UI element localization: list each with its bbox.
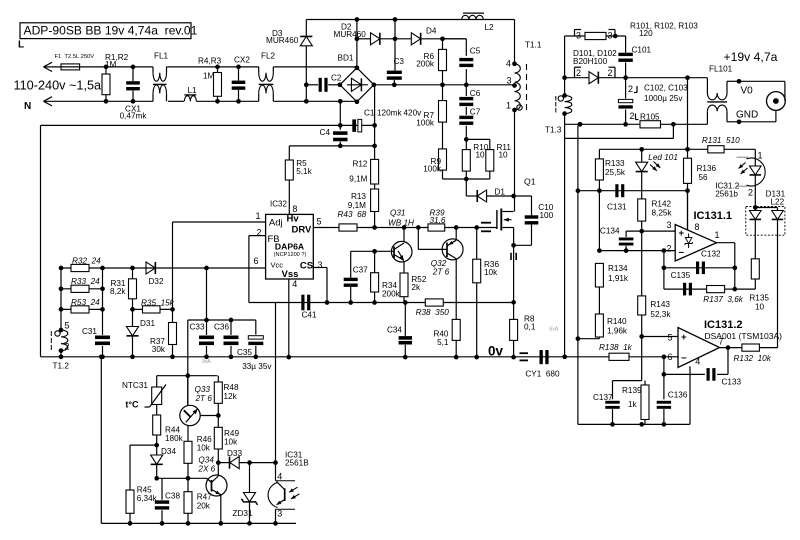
svg-text:C134: C134: [600, 226, 620, 235]
svg-text:C2: C2: [331, 73, 342, 82]
svg-text:Q1: Q1: [524, 177, 536, 187]
svg-text:52,3k: 52,3k: [650, 310, 671, 319]
svg-text:DRV: DRV: [292, 224, 313, 235]
svg-text:IC131.2: IC131.2: [704, 319, 743, 331]
svg-text:C101: C101: [632, 46, 652, 55]
svg-text:120mk: 120mk: [377, 108, 402, 117]
svg-text:Hv: Hv: [287, 213, 300, 224]
svg-text:CY1 680: CY1 680: [525, 369, 560, 378]
svg-text:6,34k: 6,34k: [137, 494, 158, 503]
svg-text:1,91k: 1,91k: [608, 274, 629, 283]
svg-text:8,2k: 8,2k: [110, 287, 126, 296]
svg-text:100k: 100k: [423, 164, 442, 173]
svg-text:R38 350: R38 350: [416, 308, 450, 317]
svg-text:31,6: 31,6: [430, 216, 446, 225]
svg-text:R12: R12: [352, 159, 367, 168]
svg-text:R134: R134: [608, 264, 628, 273]
svg-text:1: 1: [758, 151, 763, 161]
svg-text:C133: C133: [722, 378, 742, 387]
svg-text:10: 10: [755, 303, 765, 312]
svg-text:4: 4: [292, 279, 297, 289]
svg-text:8,25k: 8,25k: [652, 209, 673, 218]
svg-text:−: −: [679, 248, 685, 259]
svg-text:3: 3: [318, 260, 323, 270]
svg-text:25,5k: 25,5k: [605, 168, 626, 177]
svg-text:R13: R13: [351, 192, 366, 201]
svg-text:R142: R142: [652, 199, 672, 208]
svg-text:+: +: [681, 332, 687, 343]
svg-text:+19v 4,7a: +19v 4,7a: [724, 50, 778, 64]
svg-text:R53 24: R53 24: [71, 298, 100, 307]
svg-text:D34: D34: [161, 447, 176, 456]
svg-text:ADP-90SB BB 19v 4,74a rev.01: ADP-90SB BB 19v 4,74a rev.01: [24, 24, 198, 38]
svg-text:4: 4: [277, 472, 282, 482]
svg-text:33µ 35v: 33µ 35v: [242, 362, 272, 371]
svg-text:10k: 10k: [484, 268, 498, 277]
svg-text:C33: C33: [190, 322, 205, 331]
svg-text:2: 2: [607, 68, 612, 78]
svg-text:8: 8: [695, 222, 700, 232]
svg-text:C31: C31: [82, 327, 97, 336]
svg-text:−: −: [681, 353, 687, 364]
svg-text:FL1: FL1: [154, 51, 169, 60]
svg-text:C35: C35: [237, 348, 252, 357]
svg-text:Led 101: Led 101: [648, 153, 678, 162]
svg-text:C36: C36: [214, 322, 229, 331]
svg-text:R136: R136: [697, 164, 717, 173]
svg-text:1M: 1M: [105, 60, 117, 69]
svg-text:420v: 420v: [404, 108, 423, 117]
svg-text:5,1: 5,1: [437, 338, 449, 347]
svg-text:7: 7: [719, 337, 724, 347]
svg-text:2T 6: 2T 6: [195, 394, 213, 403]
svg-text:3: 3: [666, 220, 671, 230]
svg-text:FL101: FL101: [709, 65, 733, 74]
svg-text:10k: 10k: [224, 438, 238, 447]
svg-text:120: 120: [639, 29, 653, 38]
svg-text:110-240v ~1,5a: 110-240v ~1,5a: [14, 78, 103, 92]
svg-text:C136: C136: [668, 390, 688, 399]
svg-text:1k: 1k: [628, 400, 638, 409]
svg-text:2: 2: [748, 187, 753, 197]
svg-text:10k: 10k: [197, 444, 211, 453]
svg-text:BD1: BD1: [338, 54, 354, 63]
svg-text:DAP6A: DAP6A: [275, 241, 304, 251]
svg-text:0,1: 0,1: [524, 323, 536, 332]
svg-text:C4: C4: [320, 128, 331, 137]
svg-text:2561B: 2561B: [285, 459, 309, 468]
svg-text:Q31: Q31: [390, 209, 405, 218]
svg-text:R32 24: R32 24: [72, 257, 101, 266]
svg-text:T1.2: T1.2: [53, 361, 70, 370]
svg-text:R4,R3: R4,R3: [198, 56, 222, 65]
svg-text:R35 15k: R35 15k: [141, 299, 175, 308]
svg-text:1: 1: [506, 101, 511, 111]
svg-text:R48: R48: [224, 383, 239, 392]
svg-text:30k: 30k: [152, 345, 166, 354]
svg-text:180k: 180k: [165, 434, 184, 443]
svg-text:4: 4: [506, 58, 511, 68]
svg-text:3: 3: [277, 509, 282, 519]
svg-text:2: 2: [666, 243, 671, 253]
svg-text:C3: C3: [394, 57, 405, 66]
svg-text:L22: L22: [771, 198, 785, 207]
svg-text:0,47mk: 0,47mk: [120, 111, 148, 120]
svg-text:IC32: IC32: [270, 200, 287, 209]
svg-text:(NCP1200 ?): (NCP1200 ?): [274, 252, 307, 258]
svg-text:5: 5: [65, 321, 70, 331]
svg-text:D31: D31: [140, 319, 155, 328]
svg-text:+: +: [679, 228, 685, 239]
svg-text:C1: C1: [364, 108, 375, 117]
svg-text:C34: C34: [387, 326, 402, 335]
svg-text:1,96k: 1,96k: [607, 327, 628, 336]
svg-text:10: 10: [476, 150, 486, 159]
svg-text:CX2: CX2: [234, 55, 250, 64]
svg-text:R137 3,6k: R137 3,6k: [703, 295, 744, 304]
svg-text:R43 68: R43 68: [338, 210, 367, 219]
svg-text:C132: C132: [701, 250, 721, 259]
svg-text:R139: R139: [622, 386, 642, 395]
svg-text:C131: C131: [607, 203, 627, 212]
svg-text:2: 2: [630, 111, 635, 121]
svg-text:R44: R44: [165, 425, 180, 434]
svg-text:9,1M: 9,1M: [348, 201, 366, 210]
svg-text:F1 T2.5L 250V: F1 T2.5L 250V: [55, 54, 95, 60]
svg-text:R140: R140: [607, 317, 627, 326]
svg-text:C5: C5: [470, 46, 481, 55]
svg-text:Q33: Q33: [195, 385, 211, 394]
svg-text:20k: 20k: [197, 501, 211, 510]
svg-text:C137: C137: [593, 393, 613, 402]
svg-text:D4: D4: [426, 27, 437, 36]
svg-text:56: 56: [699, 173, 709, 182]
svg-text:1: 1: [255, 211, 260, 221]
svg-text:C41: C41: [302, 310, 317, 319]
svg-text:200k: 200k: [416, 59, 435, 68]
svg-text:5: 5: [667, 332, 672, 342]
svg-text:C38: C38: [165, 491, 180, 500]
svg-text:C7: C7: [470, 107, 481, 116]
svg-text:WB 1H: WB 1H: [388, 219, 414, 228]
svg-text:C6: C6: [470, 89, 481, 98]
svg-text:NTC31: NTC31: [122, 381, 148, 390]
svg-text:2k: 2k: [411, 283, 421, 292]
svg-text:0v: 0v: [488, 343, 504, 358]
svg-text:C37: C37: [353, 266, 368, 275]
svg-text:6: 6: [253, 256, 258, 266]
svg-text:R132 10k: R132 10k: [734, 354, 772, 363]
svg-text:R105: R105: [640, 113, 660, 122]
svg-text:2: 2: [65, 342, 70, 352]
svg-text:9,1M: 9,1M: [349, 174, 367, 183]
svg-text:GND: GND: [736, 109, 758, 120]
svg-text:D1: D1: [495, 188, 506, 197]
svg-text:t°C: t°C: [125, 400, 139, 410]
svg-text:12k: 12k: [224, 392, 238, 401]
svg-text:MUR460: MUR460: [266, 36, 299, 45]
svg-text:R47: R47: [197, 493, 212, 502]
svg-text:3: 3: [506, 76, 511, 86]
svg-text:L1: L1: [188, 86, 198, 95]
svg-text:T1.1: T1.1: [525, 40, 542, 49]
svg-text:1000µ 25v: 1000µ 25v: [644, 94, 683, 103]
svg-text:L2: L2: [485, 23, 495, 32]
svg-text:1M: 1M: [203, 72, 215, 81]
svg-text:Q34: Q34: [198, 455, 214, 464]
svg-text:B20H100: B20H100: [573, 57, 608, 66]
svg-text:200k: 200k: [382, 290, 401, 299]
svg-text:5: 5: [317, 217, 322, 227]
svg-text:2: 2: [628, 84, 633, 94]
svg-text:3: 3: [576, 31, 581, 41]
svg-text:R131 510: R131 510: [702, 136, 740, 145]
svg-text:D32: D32: [149, 277, 164, 286]
svg-text:2561b: 2561b: [715, 189, 738, 198]
svg-text:R49: R49: [224, 429, 239, 438]
svg-text:8: 8: [292, 204, 297, 214]
svg-text:T1.3: T1.3: [545, 125, 562, 134]
svg-text:C102, C103: C102, C103: [644, 84, 688, 93]
svg-text:10: 10: [499, 150, 509, 159]
svg-text:CS: CS: [300, 261, 313, 272]
svg-text:3: 3: [607, 31, 612, 41]
svg-text:100k: 100k: [416, 118, 435, 127]
svg-text:Adj: Adj: [269, 217, 283, 228]
svg-text:2T 6: 2T 6: [432, 268, 450, 277]
svg-text:ZD31: ZD31: [233, 509, 253, 518]
svg-text:N: N: [24, 101, 31, 112]
svg-text:R33 24: R33 24: [71, 277, 100, 286]
svg-text:C135: C135: [671, 271, 691, 280]
svg-text:D33: D33: [227, 449, 242, 458]
svg-text:R135: R135: [749, 293, 769, 302]
svg-text:MUR460: MUR460: [334, 30, 367, 39]
svg-text:6: 6: [667, 352, 672, 362]
svg-text:2: 2: [256, 227, 261, 237]
svg-text:2X 6: 2X 6: [197, 464, 215, 473]
svg-text:1: 1: [715, 230, 720, 240]
svg-text:V0: V0: [741, 86, 754, 97]
svg-text:4: 4: [695, 356, 700, 366]
svg-text:9vA: 9vA: [202, 359, 211, 365]
svg-text:L: L: [18, 40, 24, 51]
svg-text:DSA001 (TSM103A): DSA001 (TSM103A): [705, 331, 783, 341]
svg-text:R143: R143: [650, 300, 670, 309]
svg-text:100: 100: [540, 211, 554, 220]
svg-text:SvA: SvA: [549, 327, 559, 333]
svg-text:R138 1k: R138 1k: [599, 343, 633, 352]
svg-text:5,1k: 5,1k: [296, 167, 312, 176]
svg-text:IC131.1: IC131.1: [694, 210, 733, 222]
svg-text:R133: R133: [605, 159, 625, 168]
svg-text:FL2: FL2: [261, 51, 276, 60]
svg-text:2: 2: [576, 68, 581, 78]
